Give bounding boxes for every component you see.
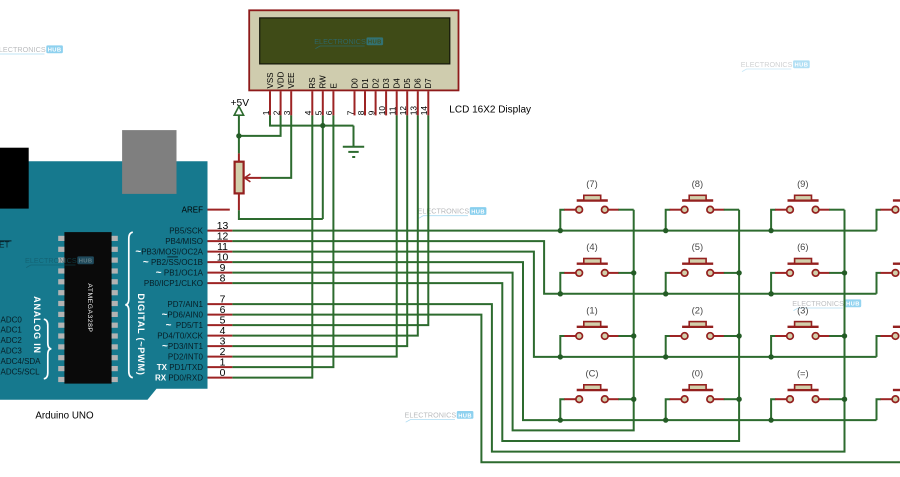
svg-text:(6): (6) [797, 241, 808, 252]
analog pin labels ADC0-ADC5 [1, 315, 42, 376]
svg-text:(7): (7) [586, 178, 597, 189]
watermark on chip [25, 256, 94, 268]
wire row D (pin10) [232, 262, 876, 420]
junction row3 col2 [663, 354, 668, 359]
push button R1C4 [877, 201, 900, 231]
svg-text:(=): (=) [797, 368, 809, 379]
svg-text:1: 1 [220, 357, 226, 368]
arduino pin stubs [208, 231, 233, 378]
LCD pin numbers [261, 106, 429, 116]
push button R3C2 (2) [666, 304, 739, 357]
potentiometer RV1 body [235, 153, 261, 210]
wire VDD to +5V [239, 115, 281, 135]
junction row4 col2 [663, 417, 668, 422]
wire row C (pin11) [232, 252, 876, 357]
svg-text:VSS: VSS [266, 72, 275, 88]
svg-text:ELECTRONICS: ELECTRONICS [418, 207, 470, 216]
wire E to pin1 [232, 115, 333, 367]
svg-text:VEE: VEE [287, 72, 296, 88]
svg-text:~ PB2/SS/OC1B: ~ PB2/SS/OC1B [143, 257, 203, 268]
svg-text:VDD: VDD [277, 71, 286, 88]
svg-text:(5): (5) [692, 241, 703, 252]
svg-text:HUB: HUB [79, 259, 93, 265]
push button R2C2 (5) [666, 241, 739, 294]
junction row2 col2 [663, 291, 668, 296]
push button R4C3 (=) [771, 368, 844, 421]
svg-text:8: 8 [220, 273, 226, 284]
wire D4 to pin2 [232, 115, 396, 356]
svg-text:6: 6 [220, 305, 226, 316]
svg-text:RX PD0/RXD: RX PD0/RXD [155, 374, 203, 383]
svg-text:PB4/MISO: PB4/MISO [165, 237, 203, 246]
svg-text:TX PD1/TXD: TX PD1/TXD [157, 363, 203, 372]
junction col-wire1 row4 [631, 397, 636, 402]
svg-text:PD7/AIN1: PD7/AIN1 [167, 300, 203, 309]
watermark top-right [741, 60, 810, 72]
svg-text:D6: D6 [414, 78, 423, 89]
LCD screen [260, 18, 450, 64]
svg-text:2: 2 [220, 347, 226, 358]
junction col-wire3 row3 [842, 333, 847, 338]
svg-text:D7: D7 [424, 78, 433, 89]
wire D5 to pin3 [232, 115, 407, 346]
push button R1C3 (9) [771, 178, 844, 231]
svg-text:~PD6/AIN0: ~PD6/AIN0 [162, 310, 204, 321]
svg-text:~PB3/MOSI/OC2A: ~PB3/MOSI/OC2A [135, 247, 203, 258]
svg-text:ELECTRONICS: ELECTRONICS [0, 45, 46, 54]
wire row B (pin12) [232, 241, 876, 294]
svg-text:D1: D1 [361, 78, 370, 89]
svg-text:Arduino UNO: Arduino UNO [35, 410, 94, 421]
svg-text:ELECTRONICS: ELECTRONICS [405, 411, 457, 420]
svg-text:AREF: AREF [182, 206, 203, 215]
Arduino UNO board U1 [0, 161, 208, 399]
junction col-wire2 row3 [736, 333, 741, 338]
svg-text:4: 4 [220, 326, 226, 337]
svg-text:13: 13 [217, 221, 229, 232]
svg-text:ANALOG IN: ANALOG IN [32, 296, 42, 354]
junction row1 col3 [768, 228, 773, 233]
junction col-wire1 row2 [631, 270, 636, 275]
svg-text:HUB: HUB [458, 413, 472, 419]
svg-text:ATMEGA328P: ATMEGA328P [86, 283, 93, 332]
svg-text:ADC5/SCL: ADC5/SCL [1, 367, 41, 376]
junction row2 col1 [558, 291, 563, 296]
junction row1 col2 [663, 228, 668, 233]
svg-text:RW: RW [319, 75, 328, 89]
LCD pin labels [266, 71, 433, 88]
svg-text:7: 7 [220, 294, 226, 305]
svg-text:(2): (2) [692, 304, 703, 315]
svg-text:~ PB1/OC1A: ~ PB1/OC1A [156, 268, 204, 279]
svg-text:ADC1: ADC1 [1, 326, 23, 335]
junction col-wire3 row2 [842, 270, 847, 275]
svg-text:HUB: HUB [846, 302, 860, 308]
ground symbol [343, 126, 364, 157]
push button R4C4 [877, 390, 900, 420]
svg-text:0: 0 [220, 368, 226, 379]
svg-text:3: 3 [220, 336, 226, 347]
svg-text:ADC2: ADC2 [1, 336, 23, 345]
arduino pin numbers [217, 221, 229, 379]
push button R3C4 [877, 327, 900, 357]
wire row A (pin13) [232, 230, 876, 232]
watermark middle [418, 207, 487, 219]
push button R2C4 [877, 264, 900, 294]
wire RS to pin0 [232, 115, 312, 377]
svg-text:D2: D2 [372, 78, 381, 89]
wire D7 to pin5 [232, 115, 428, 325]
svg-text:ADC0: ADC0 [1, 315, 23, 324]
push button R3C1 (1) [560, 304, 633, 357]
svg-text:(3): (3) [797, 304, 808, 315]
push button R1C1 (7) [560, 178, 633, 231]
svg-text:PB5/SCK: PB5/SCK [169, 227, 203, 236]
wire VEE to pot wiper [261, 115, 291, 177]
svg-text:ADC3: ADC3 [1, 347, 23, 356]
watermark right [792, 299, 861, 311]
svg-text:(8): (8) [692, 178, 703, 189]
svg-text:D4: D4 [393, 78, 402, 89]
svg-text:ELECTRONICS: ELECTRONICS [25, 256, 77, 265]
LCD 16X2 display LCD1 [249, 10, 458, 90]
IC ATMEGA328P chip [58, 232, 118, 384]
LCD pin stubs [270, 91, 428, 115]
junction row3 col3 [768, 354, 773, 359]
junction +5V/VDD [236, 133, 241, 138]
svg-text:9: 9 [220, 263, 226, 274]
svg-text:PB0/ICP1/CLKO: PB0/ICP1/CLKO [144, 279, 203, 288]
junction RW/ground [320, 123, 325, 128]
svg-text:HUB: HUB [795, 63, 809, 69]
svg-text:(9): (9) [797, 178, 808, 189]
junction row4 col1 [558, 417, 563, 422]
digital pins brace [125, 232, 133, 377]
svg-text:DIGITAL (~PWM): DIGITAL (~PWM) [136, 293, 146, 375]
+5V power symbol [231, 98, 250, 154]
analog pins brace [44, 319, 52, 379]
wire column 2 (pin8) [232, 210, 739, 441]
junction row3 col1 [558, 354, 563, 359]
svg-text:ADC4/SDA: ADC4/SDA [1, 357, 42, 366]
svg-text:PD4/T0/XCK: PD4/T0/XCK [157, 332, 203, 341]
junction col-wire3 row4 [842, 397, 847, 402]
wire RW down to pot-bottom net [322, 115, 324, 219]
USB port black [0, 148, 29, 209]
watermark top-left [0, 45, 63, 57]
svg-text:D3: D3 [382, 78, 391, 89]
svg-text:HUB: HUB [368, 40, 382, 46]
push button R4C2 (0) [666, 368, 739, 421]
push button R2C3 (6) [771, 241, 844, 294]
push button R4C1 (C) [560, 368, 633, 421]
svg-text:5: 5 [220, 315, 226, 326]
junction col-wire1 row3 [631, 333, 636, 338]
arduino pin name labels [135, 206, 203, 383]
svg-text:HUB: HUB [471, 209, 485, 215]
svg-text:~ PD5/T1: ~ PD5/T1 [166, 320, 204, 331]
push button R1C2 (8) [666, 178, 739, 231]
junction col-wire2 row2 [736, 270, 741, 275]
svg-text:HUB: HUB [48, 48, 62, 54]
svg-text:(1): (1) [586, 304, 597, 315]
svg-text:(4): (4) [586, 241, 597, 252]
svg-text:ET: ET [0, 241, 9, 250]
push button R2C1 (4) [560, 241, 633, 294]
wire column 1 (pin9) [232, 210, 633, 431]
svg-text:RS: RS [308, 77, 317, 88]
svg-text:LCD 16X2 Display: LCD 16X2 Display [449, 105, 531, 116]
svg-text:D5: D5 [403, 78, 412, 89]
svg-text:PD2/INT0: PD2/INT0 [168, 353, 204, 362]
svg-text:(0): (0) [692, 368, 703, 379]
power connector gray [122, 130, 176, 194]
svg-text:10: 10 [217, 252, 229, 263]
wire pot bottom to RW net [239, 210, 323, 219]
svg-text:E: E [329, 83, 338, 88]
svg-text:11: 11 [217, 242, 228, 253]
svg-text:~PD3/INT1: ~PD3/INT1 [162, 341, 204, 352]
svg-text:ELECTRONICS: ELECTRONICS [314, 37, 366, 46]
wire column 3 (pin7) [232, 210, 844, 452]
svg-text:12: 12 [217, 231, 229, 242]
push button R3C3 (3) [771, 304, 844, 357]
pot wiper arrow [245, 177, 262, 179]
junction row1 col1 [558, 228, 563, 233]
AREF pin [208, 209, 230, 211]
watermark bottom [405, 411, 474, 423]
wire column 4 (pin6) [232, 315, 900, 463]
svg-text:ELECTRONICS: ELECTRONICS [741, 60, 793, 69]
junction row2 col3 [768, 291, 773, 296]
junction col-wire2 row4 [736, 397, 741, 402]
wire D6 to pin4 [232, 115, 417, 335]
svg-text:(C): (C) [585, 368, 598, 379]
watermark on screen [314, 37, 383, 49]
svg-text:D0: D0 [350, 78, 359, 89]
junction row4 col3 [768, 417, 773, 422]
wire VSS to ground [270, 115, 354, 125]
